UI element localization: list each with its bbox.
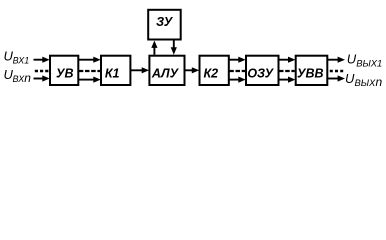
wire input 1 arrow into UV bbox=[34, 57, 50, 63]
svg-text:n: n bbox=[376, 75, 383, 89]
block UVV bbox=[296, 56, 328, 85]
node output ellipsis dots bbox=[330, 70, 344, 72]
block ZU bbox=[148, 10, 181, 40]
svg-text:ВХ1: ВХ1 bbox=[13, 56, 30, 66]
svg-text:ЗУ: ЗУ bbox=[156, 15, 174, 29]
wire K1 to ALU arrow bbox=[131, 67, 149, 73]
node UVYX1 label bbox=[347, 52, 383, 69]
svg-text:ВЫХ: ВЫХ bbox=[355, 77, 377, 88]
wire OZU to UVV dashed middle bbox=[279, 70, 295, 72]
wire ALU to K2 arrow bbox=[185, 67, 199, 73]
block UV bbox=[50, 56, 78, 85]
wire OZU to UVV top arrow bbox=[279, 57, 296, 63]
node input ellipsis dots bbox=[35, 70, 49, 72]
svg-text:К2: К2 bbox=[203, 66, 218, 80]
wire output 1 arrow bbox=[328, 57, 345, 63]
svg-text:n: n bbox=[24, 71, 31, 85]
wire K2 to OZU bottom arrow bbox=[229, 77, 246, 83]
node UVX1 label bbox=[4, 49, 30, 66]
block K1 bbox=[101, 56, 130, 85]
svg-text:U: U bbox=[345, 71, 355, 86]
wire UV to K1 top arrow bbox=[79, 57, 101, 63]
wire output n arrow bbox=[328, 75, 345, 81]
block ALU bbox=[149, 56, 184, 85]
svg-text:УВВ: УВВ bbox=[297, 66, 324, 80]
svg-text:УВ: УВ bbox=[56, 66, 74, 80]
block OZU bbox=[246, 56, 279, 85]
wire K2 to OZU top arrow bbox=[229, 57, 246, 63]
node UVXn label bbox=[4, 67, 32, 85]
wire ALU to ZU up arrow bbox=[151, 41, 157, 55]
svg-text:ВЫХ1: ВЫХ1 bbox=[356, 58, 382, 69]
wire UV to K1 bottom arrow bbox=[79, 77, 101, 83]
node UVYXn label bbox=[345, 71, 383, 89]
svg-text:ОЗУ: ОЗУ bbox=[247, 66, 274, 80]
svg-text:АЛУ: АЛУ bbox=[151, 66, 180, 80]
block K2 bbox=[200, 56, 229, 85]
wire ZU to ALU down arrow bbox=[171, 41, 177, 55]
svg-text:К1: К1 bbox=[105, 66, 120, 80]
svg-text:U: U bbox=[347, 52, 357, 67]
wire OZU to UVV bottom arrow bbox=[279, 77, 296, 83]
wire K2 to OZU dashed middle bbox=[229, 70, 245, 72]
wire UV to K1 dashed middle bbox=[79, 70, 100, 72]
wire input n arrow into UV bbox=[34, 75, 50, 81]
